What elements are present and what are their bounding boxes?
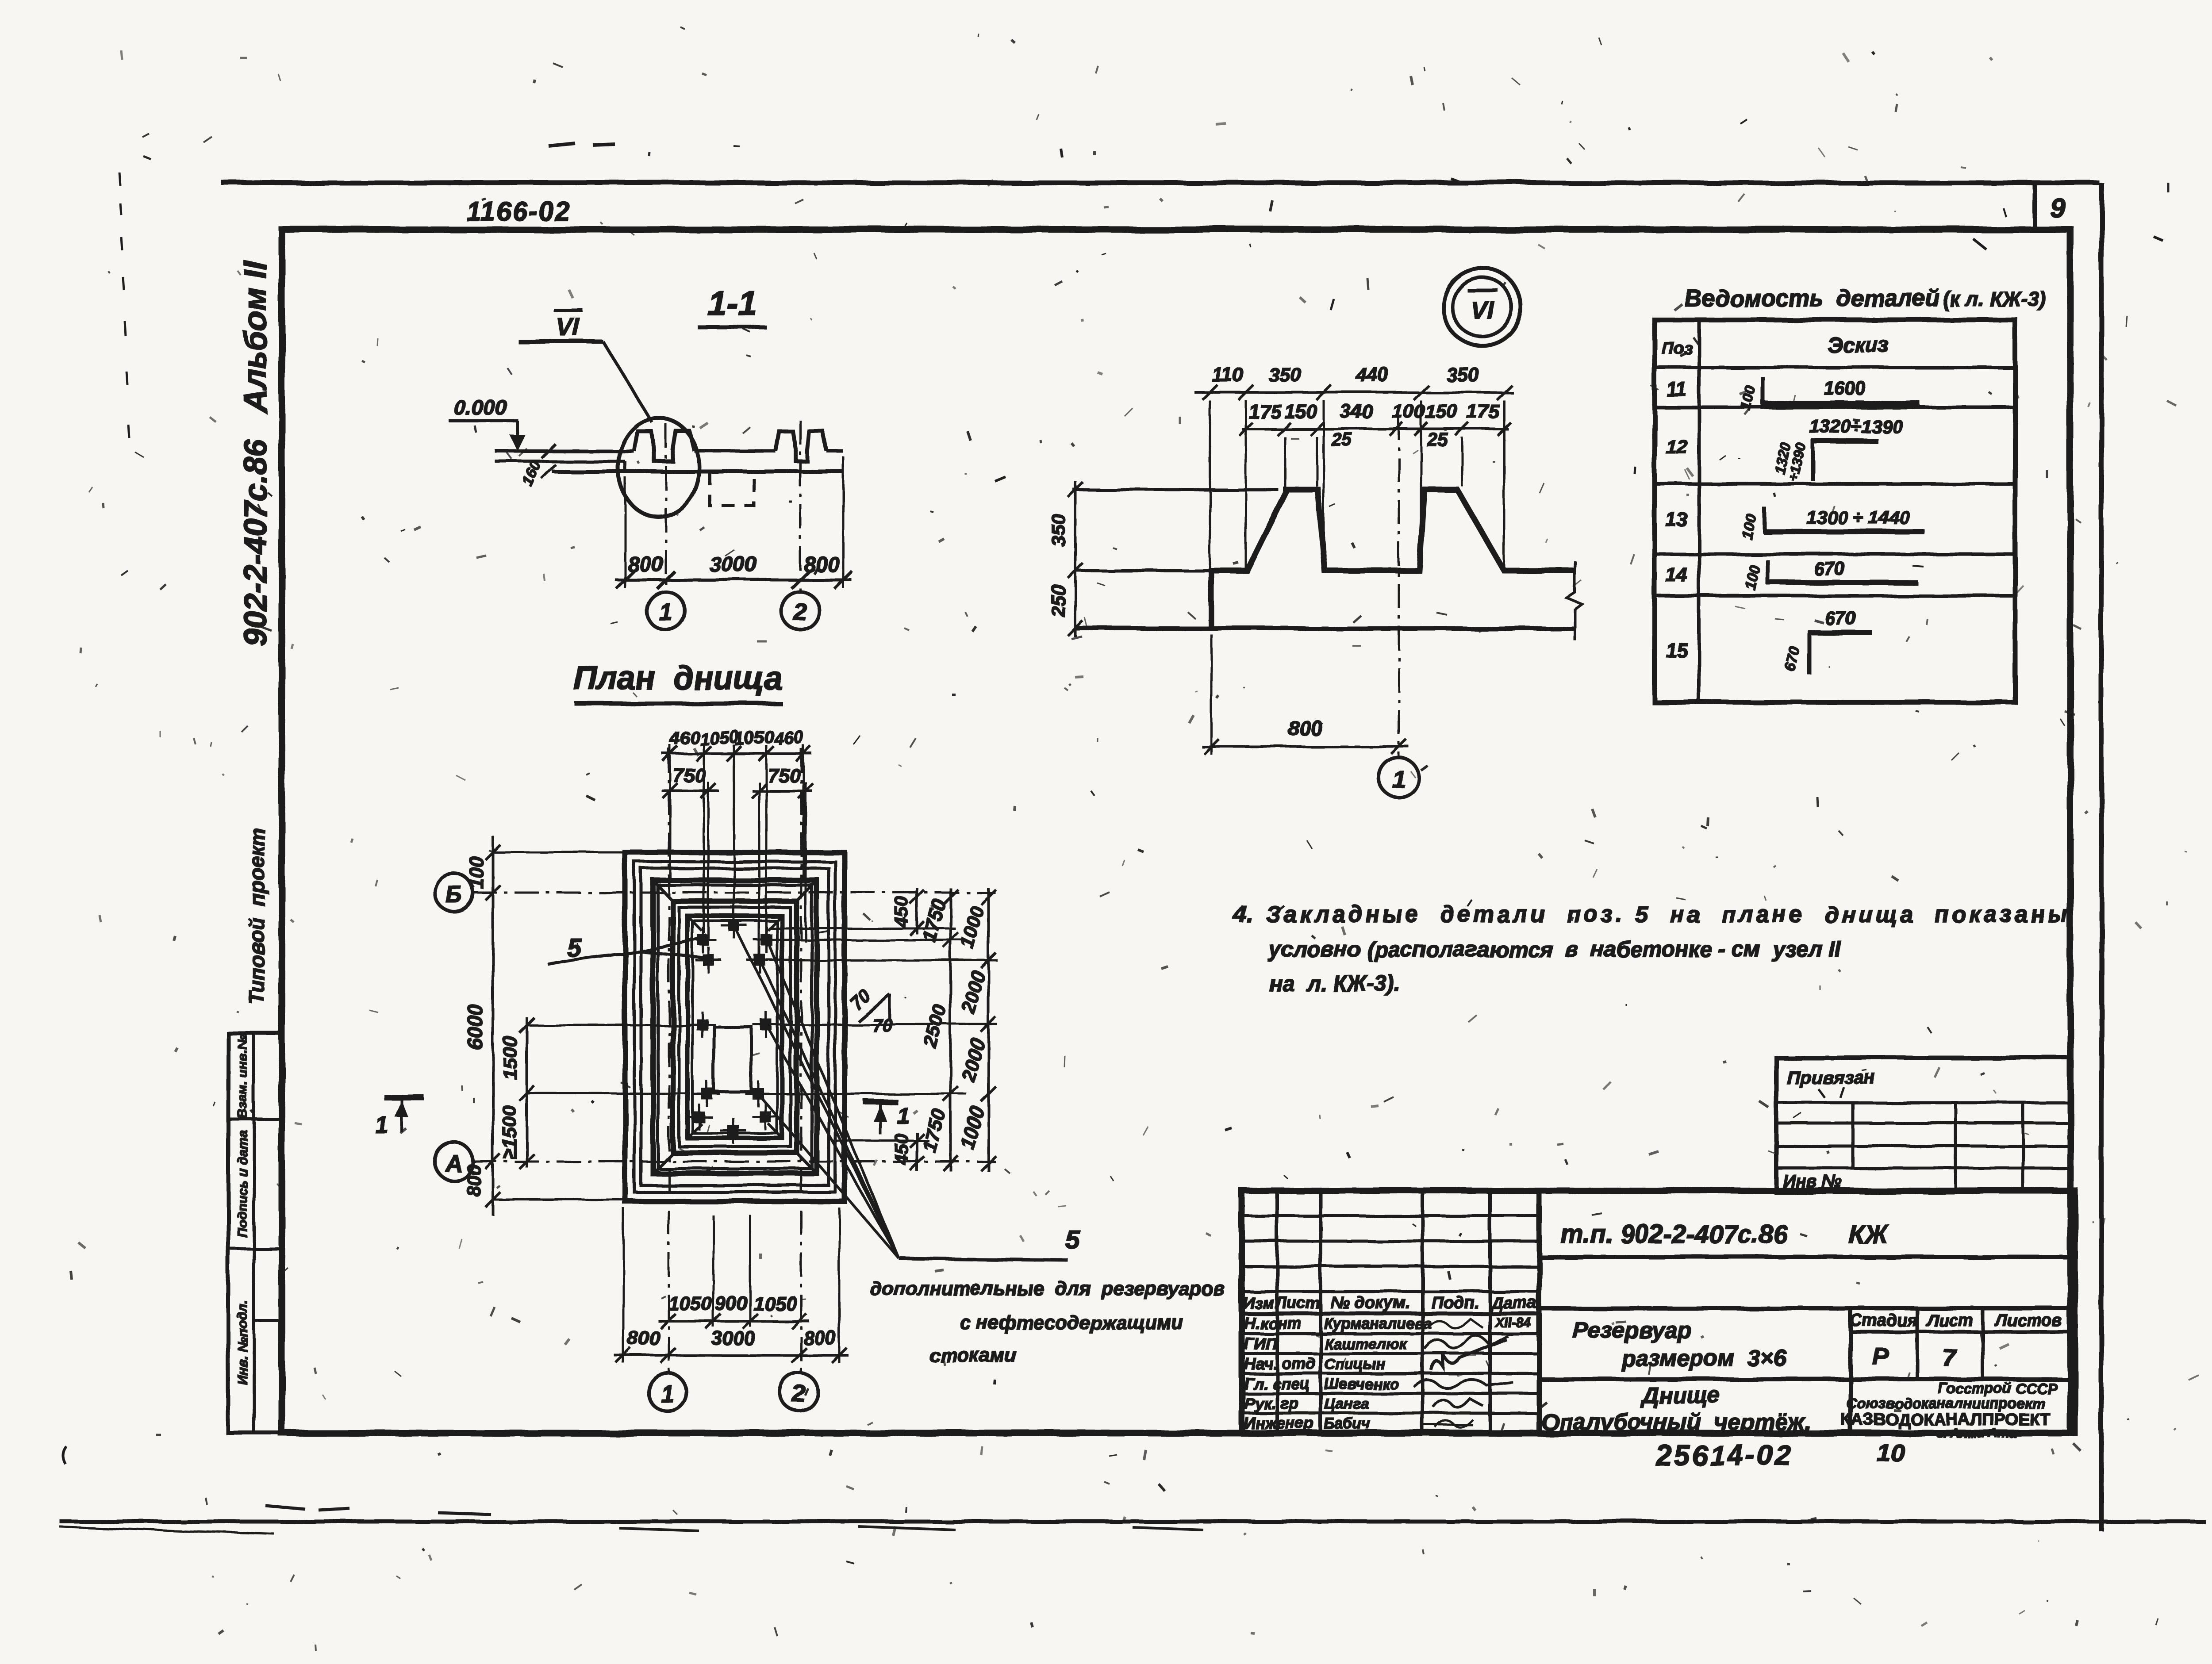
svg-text:800: 800 [803, 1327, 836, 1349]
svg-text:Эскиз: Эскиз [1827, 334, 1889, 357]
plan corner chamfers [655, 882, 674, 903]
rib pair 2 [776, 431, 827, 461]
plan step rectangle 4 [653, 880, 817, 1173]
svg-text:Союзводоканалниипроект: Союзводоканалниипроект [1846, 1395, 2045, 1411]
svg-text:Нач. отд: Нач. отд [1244, 1354, 1315, 1373]
svg-text:VI: VI [1471, 296, 1494, 324]
svg-text:План днища: План днища [573, 659, 782, 696]
bottom dim row 1050 900 1050 [658, 1320, 810, 1323]
bottom dim row 800 3000 800 [614, 1354, 849, 1357]
title block outer [1242, 1191, 2075, 1433]
svg-text:на л. КЖ-3).: на л. КЖ-3). [1269, 971, 1400, 996]
svg-text:800: 800 [1288, 717, 1322, 740]
svg-text:250: 250 [1048, 584, 1069, 617]
svg-text:25: 25 [1331, 429, 1352, 450]
leader fan to note 5 (right) [735, 928, 899, 1258]
VI extension lines [1209, 400, 1211, 568]
svg-text:10: 10 [1877, 1439, 1905, 1467]
svg-text:Шевченко: Шевченко [1324, 1376, 1398, 1392]
svg-text:450: 450 [891, 1134, 912, 1165]
svg-text:1: 1 [661, 1380, 674, 1407]
top dim row 750 750 [662, 790, 719, 792]
axis bubble A [435, 1143, 473, 1181]
axis A line [472, 1161, 995, 1163]
section axis line 2 [799, 420, 802, 592]
VI center axis [1398, 416, 1400, 757]
right dim line 1750 2500 1750 [949, 888, 952, 1171]
plan step rectangle 3 [641, 868, 829, 1185]
plan inner rectangle 9 [692, 921, 777, 1133]
section cut mark 1 right [863, 1099, 898, 1105]
section cut mark 1 left [384, 1095, 424, 1100]
svg-text:13: 13 [1666, 509, 1688, 531]
plan inner rectangle 8 [687, 916, 782, 1138]
svg-text:5: 5 [1065, 1225, 1080, 1254]
section profile: slab bottom [552, 470, 843, 474]
plan inner rectangle 7 [679, 908, 791, 1146]
svg-text:Н.конт: Н.конт [1244, 1314, 1302, 1332]
top dim extension lines [669, 745, 672, 880]
svg-text:2: 2 [793, 599, 807, 625]
svg-text:дополнительные для резервуар: дополнительные для резервуаров [870, 1278, 1225, 1300]
svg-text:Гл. спец: Гл. спец [1244, 1374, 1310, 1392]
outer right border line [2099, 183, 2104, 1531]
svg-text:9: 9 [2051, 193, 2066, 224]
svg-text:Закладные детали поз. 5 на: Закладные детали поз. 5 на плане днища п… [1266, 902, 2071, 928]
svg-text:≥1500: ≥1500 [499, 1105, 520, 1159]
svg-text:150: 150 [1425, 401, 1458, 422]
svg-text:Листов: Листов [1994, 1311, 2062, 1330]
svg-text:460: 460 [669, 728, 700, 749]
VI left dim 350 250 [1074, 481, 1077, 637]
svg-text:Подп.: Подп. [1432, 1294, 1479, 1312]
svg-text:Бабич: Бабич [1324, 1415, 1371, 1432]
svg-text:110: 110 [1212, 364, 1244, 386]
svg-text:Опалубочный чертёж.: Опалубочный чертёж. [1541, 1409, 1811, 1435]
svg-text:1-1: 1-1 [707, 284, 757, 322]
svg-text:175: 175 [1248, 401, 1281, 422]
svg-text:№ докум.: № докум. [1331, 1294, 1410, 1312]
VI break line right [1567, 561, 1582, 640]
svg-text:440: 440 [1356, 364, 1389, 386]
svg-text:Б: Б [446, 882, 462, 908]
svg-text:Инженер: Инженер [1244, 1414, 1314, 1432]
svg-text:Цанга: Цанга [1324, 1396, 1369, 1412]
svg-text:VI: VI [556, 313, 580, 341]
left stamp column [228, 1033, 282, 1433]
svg-text:размером 3×6: размером 3×6 [1621, 1346, 1787, 1371]
svg-text:1050: 1050 [734, 727, 775, 749]
VI dim 800 [1202, 745, 1409, 748]
axis bubble 2 [781, 592, 819, 630]
plan inner rectangle 6 [673, 901, 797, 1153]
left inner dim line 1500 >=1500 [526, 1017, 528, 1168]
svg-text:1: 1 [376, 1113, 389, 1139]
svg-text:1: 1 [897, 1103, 910, 1129]
svg-text:Курманалиева: Курманалиева [1324, 1315, 1432, 1332]
svg-text:Взам. инв.№: Взам. инв.№ [235, 1035, 250, 1119]
dashed pit below slab [710, 472, 754, 506]
svg-text:Изм: Изм [1243, 1294, 1274, 1312]
svg-text:1166-02: 1166-02 [466, 196, 571, 226]
svg-text:6000: 6000 [464, 1004, 487, 1050]
detail circle around rib pair 1 [618, 418, 699, 517]
slab thickness tick marks [541, 444, 556, 458]
VI dim row 110 350 440 350 [1194, 391, 1513, 394]
svg-text:Резервуар: Резервуар [1573, 1318, 1691, 1343]
doc designation cell [1539, 1255, 2075, 1259]
svg-text:2: 2 [792, 1380, 806, 1407]
detail VI bubble [1443, 268, 1521, 346]
svg-text:350: 350 [1048, 514, 1069, 546]
svg-text:Лист: Лист [1275, 1294, 1320, 1312]
outer bottom border line [60, 1520, 2205, 1524]
svg-text:150: 150 [1284, 401, 1317, 422]
svg-text:Типовой проект: Типовой проект [245, 827, 269, 1005]
section profile: floor top line [495, 449, 634, 453]
svg-text:стоками: стоками [929, 1344, 1016, 1366]
svg-text:1300 ÷ 1440: 1300 ÷ 1440 [1806, 507, 1909, 528]
svg-text:Дата: Дата [1490, 1294, 1537, 1312]
svg-text:Р: Р [1873, 1343, 1889, 1370]
parts list table frame [1655, 320, 2015, 702]
VI axis bubble 1 [1379, 758, 1419, 797]
svg-text:с нефтесодержащими: с нефтесодержащими [960, 1312, 1183, 1334]
svg-text:1: 1 [1392, 766, 1406, 793]
slope symbol 70/70 [858, 994, 890, 1021]
section profile: screed line [495, 460, 625, 463]
right ext lines [770, 928, 956, 930]
svg-text:14: 14 [1666, 564, 1688, 586]
VI profile: slab top thin left [1075, 569, 1212, 572]
svg-text:15: 15 [1666, 640, 1688, 661]
svg-text:1500: 1500 [499, 1036, 521, 1080]
svg-text:А: А [445, 1151, 462, 1177]
svg-text:12: 12 [1666, 436, 1688, 458]
svg-text:350: 350 [1268, 364, 1301, 386]
svg-text:350: 350 [1446, 364, 1479, 386]
svg-text:670: 670 [1814, 558, 1845, 579]
plan pit rectangle [714, 1027, 751, 1092]
VI profile main outline [1211, 490, 1575, 629]
svg-text:Инв. №подл.: Инв. №подл. [235, 1300, 250, 1384]
svg-text:1600: 1600 [1824, 378, 1865, 399]
axis bubble B [435, 874, 473, 912]
svg-text:Госстрой СССР: Госстрой СССР [1938, 1380, 2057, 1396]
svg-text:800: 800 [628, 553, 663, 576]
svg-text:4.: 4. [1233, 901, 1253, 928]
right dim 450 top [916, 888, 918, 934]
VI profile: slab bottom [1075, 626, 1575, 631]
svg-text:670: 670 [1825, 608, 1856, 629]
svg-text:800: 800 [804, 553, 839, 576]
svg-text:902-2-407с.86 Альбом II: 902-2-407с.86 Альбом II [238, 261, 273, 646]
VI dim row 175 150 340 100 150 175 [1242, 428, 1509, 430]
rib pair 1 (inside detail circle) [634, 431, 695, 461]
section dimension line 800 3000 800 [615, 579, 852, 582]
svg-text:г. Алма-Ата: г. Алма-Ата [1937, 1426, 2016, 1441]
axis bubble 1 [647, 592, 685, 630]
svg-text:800: 800 [463, 1164, 485, 1197]
svg-text:460: 460 [773, 728, 804, 749]
svg-text:900: 900 [715, 1293, 748, 1315]
svg-text:Ведомость деталей: Ведомость деталей [1685, 285, 1939, 311]
axis B line [472, 892, 995, 894]
svg-text:Спицын: Спицын [1324, 1356, 1385, 1373]
title block left grid [1536, 1191, 1542, 1433]
svg-text:условно (располагаются в наб: условно (располагаются в набетонке - см … [1267, 937, 1842, 962]
section axis line 1 [665, 424, 667, 592]
svg-text:1050: 1050 [668, 1293, 712, 1315]
svg-text:100: 100 [466, 856, 488, 889]
svg-text:ГИП: ГИП [1244, 1334, 1277, 1353]
embedded detail marks pos 5 [728, 920, 740, 931]
svg-text:Лист: Лист [1926, 1311, 1973, 1330]
VI profile: ledge level line [1073, 488, 1279, 491]
svg-text:0.000: 0.000 [454, 396, 507, 420]
svg-text:т.п. 902-2-407с.86: т.п. 902-2-407с.86 [1561, 1220, 1788, 1249]
svg-text:КЖ: КЖ [1848, 1220, 1889, 1249]
svg-text:3000: 3000 [711, 1327, 755, 1349]
svg-text:70: 70 [872, 1015, 893, 1035]
axis bubble 1 bottom [648, 1373, 686, 1411]
plan outer step rectangle [625, 852, 845, 1201]
svg-text:Подпись и дата: Подпись и дата [235, 1130, 250, 1237]
right dim 450 bottom [916, 1132, 918, 1171]
sheet number box divider [2032, 183, 2037, 230]
svg-text:3000: 3000 [710, 553, 757, 576]
svg-text:1050: 1050 [753, 1293, 797, 1315]
svg-text:800: 800 [627, 1327, 660, 1349]
svg-text:340: 340 [1340, 401, 1373, 422]
svg-text:Каштелюк: Каштелюк [1324, 1336, 1408, 1353]
svg-text:ХII-84: ХII-84 [1494, 1315, 1531, 1330]
plan step rectangle 5 [658, 885, 812, 1169]
svg-text:7: 7 [1943, 1345, 1957, 1371]
svg-text:1: 1 [659, 599, 672, 625]
svg-text:Рук. гр: Рук. гр [1244, 1394, 1299, 1412]
axis 2 line vertical [800, 748, 803, 1373]
drawing frame [282, 230, 2070, 1433]
svg-text:25614-02: 25614-02 [1655, 1439, 1793, 1471]
svg-text:(к л. КЖ-3): (к л. КЖ-3) [1943, 288, 2046, 311]
stage sheet columns [1848, 1308, 1853, 1433]
svg-text:Стадия: Стадия [1850, 1311, 1917, 1330]
svg-text:11: 11 [1667, 379, 1687, 400]
left main dim line 100 6000 800 [492, 836, 494, 1215]
svg-text:750: 750 [768, 765, 800, 786]
svg-text:Днище: Днище [1640, 1383, 1720, 1408]
right dim line 1000 2000 2000 1000 [987, 888, 990, 1171]
svg-text:Поз: Поз [1662, 339, 1693, 358]
svg-text:450: 450 [891, 897, 912, 928]
svg-text:175: 175 [1467, 401, 1499, 422]
axis 1 line vertical [668, 748, 670, 1373]
plan step rectangle 2 [634, 862, 835, 1192]
axis bubble 2 bottom [780, 1373, 818, 1411]
outer top border line [221, 180, 2099, 185]
svg-text:750: 750 [673, 765, 706, 786]
privyazan table [1776, 1058, 2071, 1192]
svg-text:25: 25 [1427, 429, 1448, 450]
top dim row 460 1050 1050 460 [662, 752, 812, 755]
